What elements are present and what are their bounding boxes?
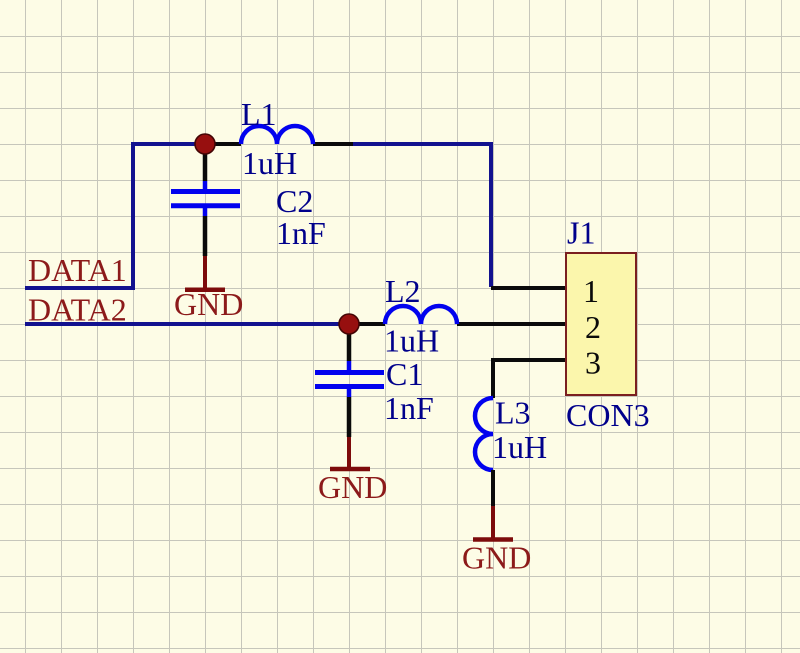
svg-text:2: 2 <box>585 309 601 345</box>
inductor L2 pins <box>349 322 565 326</box>
svg-text:1uH: 1uH <box>242 145 297 181</box>
svg-text:1nF: 1nF <box>384 390 434 426</box>
capacitor C1 pins <box>347 326 352 437</box>
inductor L1 <box>241 126 313 144</box>
svg-text:C1: C1 <box>386 356 423 392</box>
inductor L3 bottom pin <box>491 470 495 506</box>
svg-text:1: 1 <box>583 273 599 309</box>
svg-text:C2: C2 <box>276 183 313 219</box>
wire L1 output to J1 pin1 corner <box>351 144 491 287</box>
svg-text:J1: J1 <box>567 215 595 251</box>
inductor L1 pins <box>205 142 353 146</box>
svg-text:GND: GND <box>174 286 243 322</box>
svg-text:DATA1: DATA1 <box>28 252 127 288</box>
J1 pin3 wire and L3 top pin <box>493 360 565 398</box>
capacitor C2 pins <box>203 146 208 256</box>
capacitor C2 <box>171 181 240 216</box>
connector J1 body <box>566 253 636 395</box>
svg-text:L2: L2 <box>385 273 421 309</box>
svg-text:L3: L3 <box>495 395 531 431</box>
junction node DATA2/C1 <box>339 314 359 334</box>
J1 pin1 wire <box>491 286 565 290</box>
svg-text:3: 3 <box>585 345 601 381</box>
junction node DATA1/C2 <box>195 134 215 154</box>
svg-text:1nF: 1nF <box>276 215 326 251</box>
wire DATA2 net: left run to junction <box>25 322 349 326</box>
ground symbol GND (C2) <box>185 256 225 290</box>
svg-text:1uH: 1uH <box>384 323 439 359</box>
svg-text:GND: GND <box>462 540 531 576</box>
svg-text:1uH: 1uH <box>492 429 547 465</box>
ground symbol GND (L3) <box>473 506 513 540</box>
capacitor C1 <box>315 361 384 397</box>
svg-text:L1: L1 <box>241 96 277 132</box>
svg-text:GND: GND <box>318 469 387 505</box>
wire DATA1 net: left run, up, to junction <box>25 144 206 288</box>
svg-text:CON3: CON3 <box>566 397 650 433</box>
svg-text:DATA2: DATA2 <box>28 292 127 328</box>
inductor L2 <box>385 306 457 324</box>
inductor L3 <box>475 398 493 470</box>
ground symbol GND (C1) <box>330 437 370 469</box>
